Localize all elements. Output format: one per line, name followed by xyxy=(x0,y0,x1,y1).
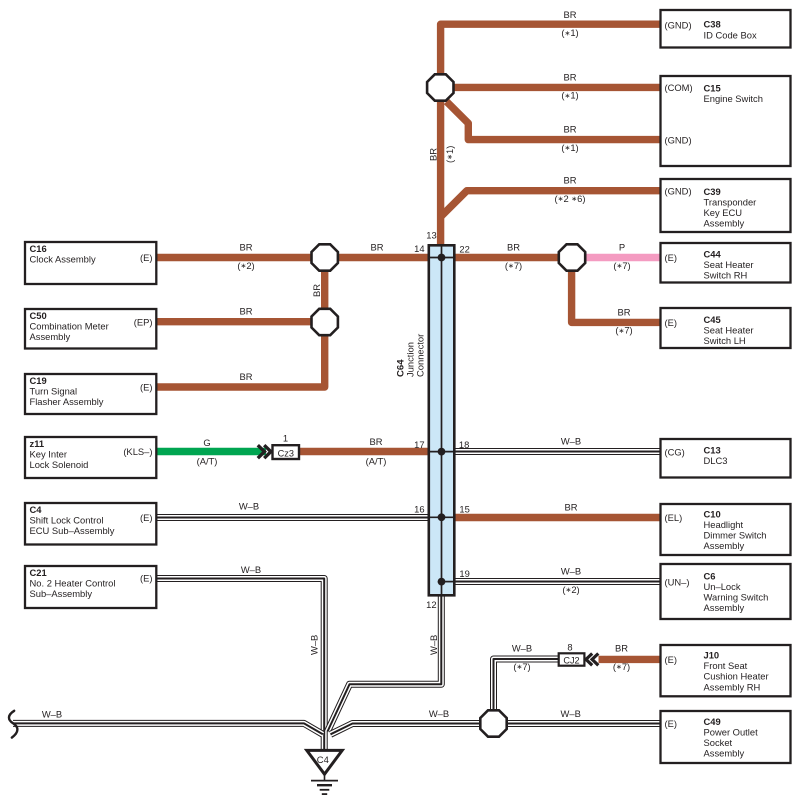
svg-text:J10: J10 xyxy=(704,650,720,661)
svg-text:(GND): (GND) xyxy=(665,134,692,145)
svg-text:BR: BR xyxy=(369,436,382,447)
wire BR to C15 (GND) xyxy=(447,102,661,140)
connector C6 Un-Lock Warning Switch xyxy=(661,564,791,619)
svg-text:Front Seat: Front Seat xyxy=(704,660,748,671)
connector C45 Seat Heater Switch LH xyxy=(661,308,791,348)
svg-text:12: 12 xyxy=(426,599,436,610)
svg-text:13: 13 xyxy=(426,230,436,241)
svg-text:(∗​1): (∗​1) xyxy=(561,90,578,101)
svg-text:C50: C50 xyxy=(30,310,47,321)
connector CJ2 box xyxy=(559,653,585,665)
svg-text:C44: C44 xyxy=(704,249,722,260)
connector C10 Headlight Dimmer Switch xyxy=(661,504,791,555)
wire W-B ground node to C49 xyxy=(331,724,661,735)
svg-text:Transponder: Transponder xyxy=(704,196,757,207)
svg-text:C49: C49 xyxy=(704,716,721,727)
svg-text:C4: C4 xyxy=(30,504,43,515)
svg-text:(∗​7): (∗​7) xyxy=(615,325,632,336)
svg-text:22: 22 xyxy=(459,243,469,254)
svg-text:Switch RH: Switch RH xyxy=(704,270,748,281)
wire P to C44 xyxy=(572,254,661,261)
svg-text:W–B: W–B xyxy=(241,564,261,575)
svg-text:Un–Lock: Un–Lock xyxy=(704,581,741,592)
svg-text:(E): (E) xyxy=(140,252,153,263)
svg-text:Cz3: Cz3 xyxy=(278,448,294,458)
wire BR CJ2 to J10 xyxy=(599,656,661,663)
ground xyxy=(324,774,326,780)
svg-text:Assembly: Assembly xyxy=(704,748,745,759)
svg-text:Clock Assembly: Clock Assembly xyxy=(30,254,96,265)
svg-text:BR: BR xyxy=(564,501,577,512)
svg-text:W–B: W–B xyxy=(428,635,439,655)
svg-text:(∗​2): (∗​2) xyxy=(237,260,254,271)
svg-text:(UN–): (UN–) xyxy=(665,576,690,587)
svg-text:BR: BR xyxy=(617,306,630,317)
svg-text:C6: C6 xyxy=(704,570,716,581)
svg-text:Assembly RH: Assembly RH xyxy=(704,681,761,692)
svg-text:(KLS–): (KLS–) xyxy=(123,446,152,457)
connector CJ2 chevrons xyxy=(586,654,598,666)
connector z11 Key Inter Lock Solenoid xyxy=(25,437,156,478)
svg-text:BR: BR xyxy=(311,284,322,297)
svg-text:Lock Solenoid: Lock Solenoid xyxy=(30,459,89,470)
svg-text:Engine Switch: Engine Switch xyxy=(704,93,763,104)
svg-text:C39: C39 xyxy=(704,186,721,197)
connector Cz3 chevrons xyxy=(258,445,271,458)
svg-text:(E): (E) xyxy=(665,654,678,665)
svg-text:W–B: W–B xyxy=(239,501,259,512)
wire W-B pin12 down to ground xyxy=(328,594,442,732)
svg-text:BR: BR xyxy=(370,242,383,253)
svg-text:ID Code Box: ID Code Box xyxy=(704,29,757,40)
svg-text:(COM): (COM) xyxy=(665,82,693,93)
svg-text:(E): (E) xyxy=(140,573,153,584)
svg-text:BR: BR xyxy=(615,643,628,654)
svg-text:Assembly: Assembly xyxy=(704,540,745,551)
svg-text:Assembly: Assembly xyxy=(30,331,71,342)
svg-text:Seat Heater: Seat Heater xyxy=(704,259,754,270)
svg-text:W–B: W–B xyxy=(429,708,449,719)
connector C19 Turn Signal Flasher xyxy=(25,374,156,414)
svg-text:Shift Lock Control: Shift Lock Control xyxy=(30,515,104,526)
connector C44 Seat Heater Switch RH xyxy=(661,243,791,283)
connector C4 Shift Lock Control ECU xyxy=(25,503,156,545)
svg-text:(EL): (EL) xyxy=(665,512,683,523)
svg-text:18: 18 xyxy=(459,439,469,450)
svg-text:(∗​7): (∗​7) xyxy=(505,260,522,271)
wire W-B C21 down to ground xyxy=(156,579,324,751)
svg-text:Assembly: Assembly xyxy=(704,218,745,229)
svg-text:(∗​1): (∗​1) xyxy=(561,27,578,38)
svg-text:(E): (E) xyxy=(140,512,153,523)
svg-text:Dimmer Switch: Dimmer Switch xyxy=(704,530,767,541)
connector C49 Power Outlet Socket xyxy=(661,711,791,763)
svg-text:W–B: W–B xyxy=(561,436,581,447)
connector C15 Engine Switch xyxy=(661,76,791,166)
connector Cz3 box xyxy=(273,445,300,459)
svg-text:(∗​7): (∗​7) xyxy=(613,661,630,672)
svg-text:19: 19 xyxy=(459,568,469,579)
junction connector C64 bar xyxy=(429,245,455,595)
svg-text:No. 2 Heater Control: No. 2 Heater Control xyxy=(30,578,116,589)
svg-text:P: P xyxy=(619,242,625,253)
svg-text:C45: C45 xyxy=(704,314,721,325)
svg-text:(∗​7): (∗​7) xyxy=(513,661,530,672)
svg-text:8: 8 xyxy=(567,641,572,652)
wire BR to C15 (COM) xyxy=(446,84,661,91)
wire W-B pin18 to C13 xyxy=(455,448,660,455)
connector C50 Combination Meter xyxy=(25,309,156,349)
svg-text:(GND): (GND) xyxy=(665,185,692,196)
wire BR pin22 to junction xyxy=(455,254,572,261)
svg-text:Cushion Heater: Cushion Heater xyxy=(704,671,769,682)
svg-text:Seat Heater: Seat Heater xyxy=(704,325,754,336)
connector C38 ID Code Box xyxy=(661,10,791,48)
svg-text:C4: C4 xyxy=(317,754,329,765)
svg-text:BR: BR xyxy=(239,371,252,382)
svg-text:W–B: W–B xyxy=(561,708,581,719)
connector C13 DLC3 xyxy=(661,439,791,478)
svg-text:BR: BR xyxy=(563,9,576,20)
connector C39 Transponder Key ECU xyxy=(661,179,791,232)
svg-text:(∗​1): (∗​1) xyxy=(561,142,578,153)
svg-text:Sub–Assembly: Sub–Assembly xyxy=(30,588,93,599)
svg-text:Switch LH: Switch LH xyxy=(704,335,746,346)
svg-text:(E): (E) xyxy=(665,718,678,729)
svg-text:BR: BR xyxy=(427,148,438,161)
svg-text:(∗​2): (∗​2) xyxy=(562,584,579,595)
svg-text:W–B: W–B xyxy=(561,566,581,577)
svg-text:Warning Switch: Warning Switch xyxy=(704,592,769,603)
svg-text:(A/T): (A/T) xyxy=(366,456,387,467)
svg-text:Socket: Socket xyxy=(704,737,733,748)
svg-text:W–B: W–B xyxy=(42,708,62,719)
wire BR trunk to C38 (GND) xyxy=(441,24,661,245)
svg-text:(EP): (EP) xyxy=(134,316,153,327)
svg-text:1: 1 xyxy=(283,432,288,443)
svg-text:Connector: Connector xyxy=(415,334,426,377)
junction dot pin16 xyxy=(438,513,446,521)
svg-text:Headlight: Headlight xyxy=(704,519,744,530)
svg-text:BR: BR xyxy=(507,242,520,253)
ground triangle C4 xyxy=(307,750,342,774)
svg-text:C16: C16 xyxy=(30,243,47,254)
svg-text:z11: z11 xyxy=(30,438,45,449)
wire W-B C4 to pin16 xyxy=(156,514,428,521)
svg-text:C19: C19 xyxy=(30,375,47,386)
svg-text:(E): (E) xyxy=(140,382,153,393)
svg-text:Power Outlet: Power Outlet xyxy=(704,726,759,737)
junction node B (C50 row) xyxy=(312,309,338,335)
svg-text:(∗​2 ∗​6): (∗​2 ∗​6) xyxy=(554,193,585,204)
connector J10 Front Seat Cushion Heater RH xyxy=(661,645,791,696)
junction node A (C16 row) xyxy=(312,244,338,270)
svg-text:(A/T): (A/T) xyxy=(197,456,218,467)
svg-text:C21: C21 xyxy=(30,567,47,578)
svg-text:15: 15 xyxy=(459,504,469,515)
connector C21 No.2 Heater Control xyxy=(25,566,156,608)
svg-text:C38: C38 xyxy=(704,19,721,30)
junction node D (bottom) xyxy=(480,710,506,736)
svg-text:C15: C15 xyxy=(704,83,721,94)
svg-text:BR: BR xyxy=(239,306,252,317)
wire BR to C39 (GND) xyxy=(441,191,661,217)
svg-text:Key Inter: Key Inter xyxy=(30,449,68,460)
svg-text:(∗​7): (∗​7) xyxy=(613,260,630,271)
junction node C (pin22 row) xyxy=(559,244,585,270)
svg-text:BR: BR xyxy=(563,175,576,186)
svg-text:ECU Sub–Assembly: ECU Sub–Assembly xyxy=(30,525,115,536)
svg-text:C10: C10 xyxy=(704,508,721,519)
svg-text:DLC3: DLC3 xyxy=(704,455,728,466)
connector C16 Clock Assembly xyxy=(25,242,156,284)
wire BR vertical to C19 xyxy=(156,258,324,388)
wire BR C16 to C64 pin14 xyxy=(156,254,428,261)
wire W-B pin19 to C6 xyxy=(455,578,660,585)
svg-text:BR: BR xyxy=(239,242,252,253)
svg-text:W–B: W–B xyxy=(512,643,532,654)
junction dot pin14 xyxy=(438,254,446,262)
svg-text:BR: BR xyxy=(563,71,576,82)
wire BR to C45 xyxy=(572,258,661,323)
svg-text:G: G xyxy=(203,437,210,448)
svg-text:C13: C13 xyxy=(704,445,721,456)
svg-text:Combination Meter: Combination Meter xyxy=(30,321,109,332)
wire BR Cz3 to pin17 xyxy=(300,448,428,455)
svg-text:17: 17 xyxy=(414,439,424,450)
svg-text:(E): (E) xyxy=(665,317,678,328)
junction dot pin19 xyxy=(438,578,446,586)
svg-text:W–B: W–B xyxy=(309,635,320,655)
wire break symbol xyxy=(9,711,17,738)
svg-text:(E): (E) xyxy=(665,252,678,263)
svg-text:Assembly: Assembly xyxy=(704,602,745,613)
svg-text:Turn Signal: Turn Signal xyxy=(30,386,78,397)
wire BR pin15 to C10 xyxy=(455,514,660,521)
wire G z11 to Cz3 xyxy=(156,448,266,455)
svg-text:CJ2: CJ2 xyxy=(563,655,579,665)
svg-text:(CG): (CG) xyxy=(665,446,685,457)
wire BR C50 xyxy=(156,318,324,325)
junction dot pin17 xyxy=(438,448,446,456)
svg-text:Key ECU: Key ECU xyxy=(704,207,743,218)
junction node top xyxy=(427,74,453,100)
wire W-B from break to ground node xyxy=(13,723,323,734)
svg-text:(∗​1): (∗​1) xyxy=(444,146,455,163)
svg-text:16: 16 xyxy=(414,504,424,515)
wire W-B junction to CJ2 xyxy=(494,659,559,724)
svg-text:14: 14 xyxy=(414,243,424,254)
svg-text:Flasher Assembly: Flasher Assembly xyxy=(30,396,104,407)
svg-text:BR: BR xyxy=(563,124,576,135)
svg-text:(GND): (GND) xyxy=(665,20,692,31)
